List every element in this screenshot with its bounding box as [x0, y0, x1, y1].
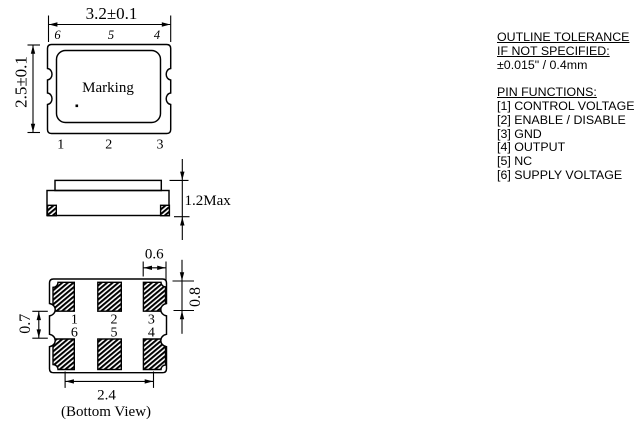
svg-text:4: 4: [154, 28, 160, 42]
castellation notch cover left top: [44, 304, 55, 315]
dimension 0.6 lines and arrows: [143, 262, 166, 282]
dimension 1.2Max line with arrows: [170, 159, 190, 240]
svg-text:0.8: 0.8: [187, 287, 204, 307]
pin label 5: [108, 28, 114, 42]
bottom view pin number 6: [71, 325, 78, 340]
dimension 0.8 line with ticks and arrows: [173, 260, 195, 334]
side view body: [47, 191, 169, 216]
pin label 4: [154, 28, 160, 42]
bottom view pin number 3: [148, 313, 155, 328]
castellation notch cover left bottom: [44, 335, 55, 346]
bottom view pin number 4: [148, 325, 155, 340]
caption (Bottom View): [61, 404, 151, 420]
dimension 0.6 text: [145, 247, 164, 263]
castellation notch cover right bottom: [161, 335, 172, 346]
svg-text:6: 6: [71, 325, 78, 340]
svg-text:(Bottom View): (Bottom View): [61, 404, 151, 420]
top view package body outline with side castellation notches: [48, 45, 171, 134]
svg-text:5: 5: [111, 325, 118, 340]
bottom view pin number 2: [111, 313, 118, 328]
bottom view pad 1 (top-left, hatched): [53, 282, 74, 311]
svg-text:2.5±0.1: 2.5±0.1: [12, 56, 31, 108]
pin label 6: [54, 28, 61, 42]
dimension 0.7 line with ticks and arrows: [32, 311, 48, 338]
svg-text:4: 4: [148, 325, 155, 340]
svg-text:2.4: 2.4: [97, 388, 116, 404]
dimension 2.5±0.1 text (rotated): [12, 56, 31, 108]
Marking text: [82, 80, 134, 96]
dimension 3.2±0.1 text: [86, 4, 138, 23]
dimension 1.2Max text: [185, 193, 232, 209]
dimension 3.2 line with arrows: [49, 22, 170, 26]
top view inner cavity rounded rectangle: [57, 51, 161, 123]
pin functions text block: [497, 31, 634, 183]
pin label 3: [157, 137, 164, 152]
svg-text:0.6: 0.6: [145, 247, 164, 263]
svg-text:3: 3: [157, 137, 164, 152]
svg-text:0.7: 0.7: [17, 314, 34, 334]
side view lid: [55, 180, 161, 190]
bottom view pin number 1: [71, 313, 78, 328]
bottom view package body outline with side castellation notches: [50, 279, 167, 373]
side view right solder pad (hatched): [161, 205, 170, 215]
dimension 2.5 line with ticks and arrows: [28, 45, 41, 133]
dimension 2.4 lines and arrows: [65, 372, 153, 388]
svg-text:2: 2: [105, 137, 112, 152]
dimension 3.2 extension line left: [48, 16, 50, 43]
dimension 3.2 extension line right: [170, 16, 172, 43]
bottom view pad 5 (bottom-middle, hatched): [98, 339, 122, 370]
dimension 0.8 text (rotated): [187, 287, 204, 307]
bottom view pad 3 (top-right, hatched): [143, 282, 165, 311]
side view left solder pad (hatched): [48, 205, 57, 215]
svg-text:5: 5: [108, 28, 114, 42]
castellation notch cover right top: [161, 304, 172, 315]
bottom view pad 6 (bottom-left, hatched): [53, 339, 74, 370]
bottom view pad 2 (top-middle, hatched): [98, 282, 122, 311]
bottom view pin number 5: [111, 325, 118, 340]
pin label 1: [57, 137, 64, 152]
svg-text:3.2±0.1: 3.2±0.1: [86, 4, 138, 23]
dimension 2.4 text: [97, 388, 116, 404]
bottom view pad 4 (bottom-right, hatched): [143, 339, 165, 370]
svg-text:Marking: Marking: [82, 80, 134, 96]
pin 1 index dot: [76, 105, 79, 108]
svg-text:1.2Max: 1.2Max: [185, 193, 232, 209]
svg-text:1: 1: [57, 137, 64, 152]
svg-text:6: 6: [54, 28, 61, 42]
pin label 2: [105, 137, 112, 152]
dimension 0.7 text (rotated): [17, 314, 34, 334]
